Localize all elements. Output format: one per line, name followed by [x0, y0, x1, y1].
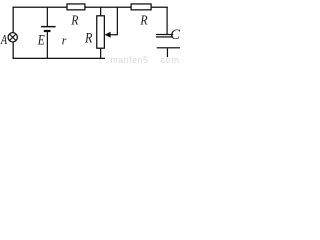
lamp A (circle with X) [8, 33, 17, 42]
svg-text:E: E [37, 32, 45, 48]
capacitor top plate [156, 34, 173, 35]
rheostat box (vertical) [97, 16, 105, 48]
svg-text:R: R [140, 14, 148, 29]
svg-text:R: R [70, 14, 78, 29]
bar (bottom-right horizontal wire) [157, 47, 180, 48]
rheostat: wire from top wire down to box [100, 7, 101, 16]
stub: vertical below bar [167, 48, 168, 57]
capacitor bottom plate [156, 36, 173, 37]
resistor R2 (box on top wire) [131, 4, 151, 10]
background [0, 0, 180, 65]
battery short thick plate (-) [44, 30, 51, 32]
svg-text:manfen5: manfen5 [110, 55, 148, 65]
wire: top horizontal [13, 7, 168, 8]
svg-text:C: C [170, 27, 180, 43]
wiper arrowhead [105, 32, 111, 38]
svg-text:com: com [161, 55, 180, 65]
wire: bottom horizontal (left part only) [13, 58, 106, 59]
resistor R1 (box on top wire) [67, 4, 85, 10]
wire: left vertical [13, 7, 14, 59]
battery: wire from top wire down [47, 7, 48, 26]
svg-text:A: A [0, 32, 7, 47]
wiper wire: horizontal [110, 34, 118, 35]
wire: right vertical from top wire down to capacitor [167, 7, 168, 35]
wiper wire: vertical from top wire [117, 7, 118, 35]
svg-text:R: R [84, 30, 92, 46]
battery long plate (+) [41, 26, 56, 28]
rheostat: wire from box bottom to bottom wire [100, 48, 101, 58]
battery: wire down to bottom wire [47, 32, 48, 58]
